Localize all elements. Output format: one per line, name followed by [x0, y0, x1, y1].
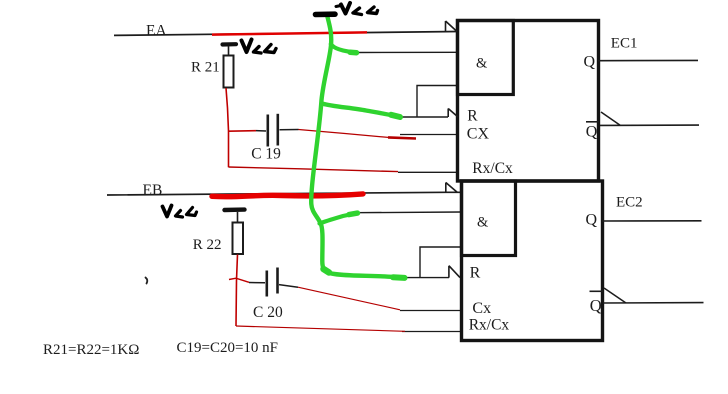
wire green fat tip at R U2	[324, 269, 405, 278]
svg-text:&: &	[477, 215, 489, 231]
value label R 21	[191, 60, 220, 76]
wire AND input U2	[353, 211, 461, 214]
svg-text:C 20: C 20	[253, 304, 283, 321]
Vcc handwritten label near R21	[242, 40, 277, 54]
svg-text:C19=C20=10 nF: C19=C20=10 nF	[177, 340, 279, 356]
pin label Q U1	[584, 54, 596, 71]
value label R 22	[193, 237, 222, 253]
svg-text:EC2: EC2	[616, 195, 643, 211]
edge-trigger symbol R input U1	[448, 109, 458, 118]
Vcc bar top (supply)	[316, 11, 336, 17]
svg-text:Rx/Cx: Rx/Cx	[472, 160, 513, 177]
wire CX input U1	[400, 134, 457, 136]
svg-text:R 22: R 22	[193, 237, 222, 253]
Vcc bar R22	[225, 207, 245, 212]
wire step R input U1	[402, 86, 457, 118]
capacitor C20	[249, 268, 298, 297]
wire step R input U2	[407, 247, 461, 278]
value label C 19	[251, 146, 281, 163]
wire Cx input U2	[400, 310, 461, 312]
svg-text:Q: Q	[586, 124, 598, 141]
wire red C20 to Cx U2	[298, 287, 400, 310]
wire green branch to R U1	[322, 104, 400, 118]
svg-text:EB: EB	[143, 182, 163, 199]
pin label Rx/Cx U1	[472, 160, 513, 177]
Vcc bar R21	[223, 42, 237, 46]
wire red stub to C20	[229, 278, 249, 282]
pin label & U1	[476, 56, 488, 72]
wire red R21 bottom	[226, 88, 229, 167]
node EA label	[146, 23, 167, 40]
monostable U1 body	[458, 21, 599, 182]
wire Qbar output U1	[600, 124, 699, 126]
stray apostrophe mark	[146, 278, 148, 284]
edge-trigger symbol input A1	[446, 21, 458, 32]
wire Rx/Cx input U2	[402, 331, 461, 333]
wire red to Rx/Cx U1	[229, 167, 399, 172]
svg-text:R 21: R 21	[191, 60, 220, 76]
pin label Rx/Cx U2	[469, 317, 510, 334]
svg-text:EC1: EC1	[611, 36, 638, 52]
svg-text:CX: CX	[467, 126, 490, 143]
wire green branch to AND U2	[320, 213, 358, 223]
node EB label	[143, 182, 163, 199]
resistor R22	[233, 212, 244, 254]
AND gate box U2	[462, 181, 516, 256]
wire red R22 bottom	[236, 255, 238, 327]
value text R21=R22=1KOhm	[43, 342, 139, 358]
wire Rx/Cx input U1	[398, 171, 458, 173]
svg-text:C 19: C 19	[251, 146, 281, 163]
wire EA input line	[114, 32, 457, 36]
monostable U2 body	[462, 181, 603, 341]
capacitor C19	[256, 114, 299, 147]
Vcc handwritten label near R22	[163, 206, 197, 218]
wire red overlay EB (thick)	[212, 194, 363, 197]
resistor R21	[224, 47, 234, 88]
svg-text:Cx: Cx	[472, 300, 491, 317]
pin label R U1	[467, 108, 478, 125]
inversion triangle Qbar U2	[604, 288, 626, 303]
svg-text:Q: Q	[590, 296, 602, 315]
pin label Qbar U2	[590, 291, 604, 315]
inversion triangle Qbar U1	[601, 112, 621, 126]
svg-text:R: R	[470, 264, 481, 281]
wire AND input U1	[356, 51, 457, 53]
edge-trigger symbol R input U2	[449, 266, 460, 278]
svg-text:Q: Q	[586, 212, 598, 229]
pin label Qbar U1	[586, 122, 599, 141]
svg-text:Q: Q	[584, 54, 596, 71]
value label C 20	[253, 304, 283, 321]
svg-text:&: &	[476, 56, 488, 72]
pin label R U2	[470, 264, 481, 281]
node EC2 label	[616, 195, 643, 211]
pin label CX U1	[467, 126, 490, 143]
wire red to Rx/Cx U2	[236, 326, 405, 331]
wire green Vcc main vertical	[311, 15, 403, 278]
edge-trigger symbol input A2	[446, 183, 458, 193]
svg-text:R: R	[467, 108, 478, 125]
wire red overlay EA	[212, 32, 367, 34]
wire Q output U1	[598, 59, 698, 61]
pin label & U2	[477, 215, 489, 231]
pin label Cx U2	[472, 300, 491, 317]
value text C19=C20=10nF	[177, 340, 279, 356]
wire Q output U2	[602, 220, 702, 222]
wire red stub to C19	[229, 130, 257, 133]
wire green branch to AND U1	[331, 44, 357, 53]
Vcc handwritten label top	[336, 3, 378, 15]
pin label Q U2	[586, 212, 598, 229]
wire Qbar output U2	[603, 302, 704, 304]
wire red C19 to CX U1	[299, 130, 417, 139]
svg-text:EA: EA	[146, 23, 167, 40]
svg-text:Rx/Cx: Rx/Cx	[469, 317, 510, 334]
node EC1 label	[611, 36, 638, 52]
wire EB input line	[107, 192, 461, 195]
AND gate box U1	[458, 21, 514, 95]
svg-text:R21=R22=1KΩ: R21=R22=1KΩ	[43, 342, 139, 358]
